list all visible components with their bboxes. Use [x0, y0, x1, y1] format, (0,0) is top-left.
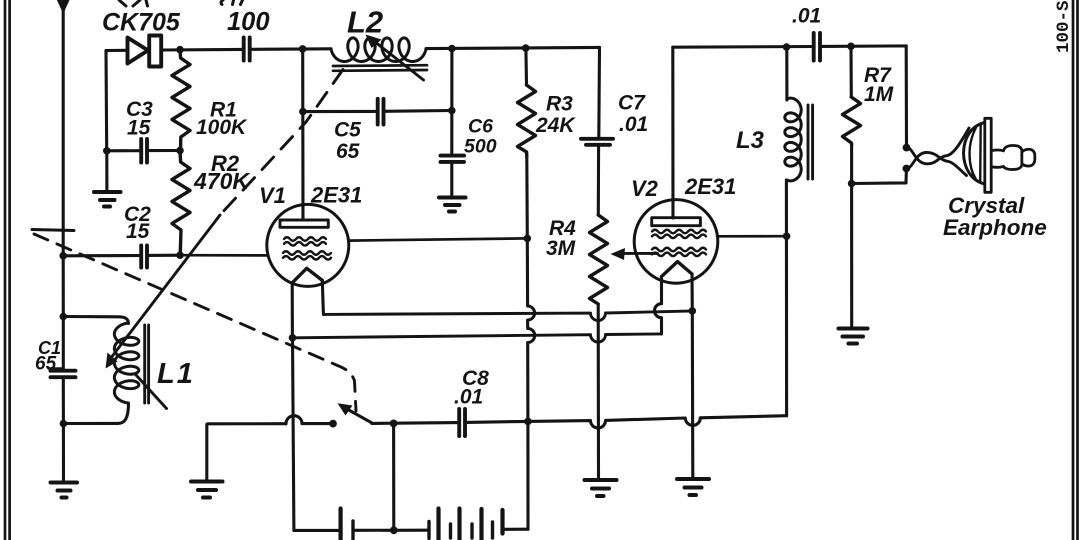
- wire L3 top lead: [785, 47, 788, 100]
- L1 core lines: [145, 325, 149, 403]
- dashed gang line to switch: [34, 234, 356, 411]
- svg-text:C5: C5: [334, 119, 361, 142]
- V2 filament left leg with hop over upper bus: [655, 277, 662, 334]
- svg-text:65: 65: [336, 140, 360, 163]
- diode X1 cathode bar: [149, 36, 161, 67]
- node: R7 bottom junction: [848, 180, 856, 188]
- svg-text:100-S: 100-S: [1054, 0, 1074, 53]
- svg-text:3M: 3M: [546, 237, 576, 260]
- wire corner down to earphone upper terminal: [905, 46, 908, 148]
- wire V1 filament left leg down: [291, 283, 294, 338]
- antenna lead wire: [62, 8, 65, 256]
- wire battery tap riser: [392, 423, 395, 530]
- ground (antenna tank): [51, 483, 78, 498]
- svg-text:V1: V1: [259, 183, 286, 208]
- wire R7 to earphone lower terminal: [852, 169, 907, 184]
- wire C5 right: [384, 109, 452, 113]
- wire diode to R1 node: [162, 48, 243, 52]
- wire C8 bus right with hops to L3 return: [528, 416, 787, 428]
- wire R4 bottom down to ground: [597, 304, 600, 479]
- svg-text:C7: C7: [618, 92, 646, 115]
- wire battery A to B: [355, 529, 427, 532]
- capacitor C3 plates: [141, 139, 147, 163]
- V1 grid 1 wavy: [284, 237, 326, 245]
- node: C2/R2/grid junction: [176, 251, 184, 259]
- node: C3/R1/R2 junction: [176, 147, 184, 155]
- wire top corner down to C7: [597, 47, 601, 138]
- wire down to C1: [62, 317, 65, 371]
- wire to ground: [62, 424, 65, 482]
- wire V1 grid to R3 node: [349, 238, 528, 240]
- svg-text:.01: .01: [619, 113, 648, 136]
- svg-text:.01: .01: [454, 386, 483, 409]
- svg-text:L2: L2: [347, 5, 383, 40]
- twisted pair to earphone: [907, 128, 970, 164]
- inductor L1: [114, 323, 138, 403]
- node: antenna / C2 junction: [59, 252, 67, 260]
- ground (C6): [439, 198, 466, 212]
- svg-text:V2: V2: [631, 176, 659, 201]
- node: R3 branch on top wire: [522, 44, 530, 52]
- wire V1 plate lead: [301, 49, 304, 220]
- C1 label underline: [49, 367, 63, 369]
- wire C3 right to junction: [148, 149, 180, 152]
- V1 grid 2 wavy: [283, 251, 331, 259]
- V2 grid 2 wavy: [652, 248, 706, 256]
- ground (R4 line): [585, 480, 617, 496]
- V2 filament: [662, 262, 693, 277]
- inductor L3: [785, 98, 801, 181]
- battery B plates: [429, 509, 503, 540]
- battery A plate short: [351, 521, 354, 539]
- resistor R2: [172, 151, 190, 256]
- ground (R7 / earphone): [839, 329, 868, 344]
- border left double line: [5, 0, 10, 540]
- svg-text:15: 15: [127, 117, 151, 140]
- svg-text:15: 15: [126, 220, 150, 243]
- svg-text:100K: 100K: [196, 116, 248, 139]
- wire C9 to R7 and earphone corner: [820, 44, 906, 48]
- wire V1 filament right leg: [322, 280, 323, 314]
- wire R7 bottom lead: [850, 145, 853, 184]
- capacitor C5 plates: [378, 99, 384, 125]
- wire L1 bottom: [63, 404, 128, 424]
- wire switch pivot to C8: [372, 421, 459, 425]
- capacitor C1 plates: [51, 371, 76, 378]
- svg-text:65: 65: [35, 354, 57, 375]
- wire battery bottom left: [294, 529, 338, 532]
- node: L3 top junction: [783, 43, 791, 51]
- L2 tuning arrow: [372, 40, 424, 81]
- capacitor C2 plates: [141, 246, 147, 268]
- node: C5/C6 junction: [448, 107, 456, 115]
- node: diode/R1 junction: [176, 46, 184, 54]
- svg-text:2E31: 2E31: [684, 174, 736, 199]
- switch arm: [347, 409, 372, 423]
- wire C1 bottom: [62, 378, 65, 424]
- V1 filament: [292, 268, 322, 283]
- wire down from diode to C3: [104, 51, 108, 151]
- earphone ear nub: [1004, 145, 1022, 169]
- node: C6 branch on top wire: [448, 45, 456, 53]
- svg-text:.01: .01: [792, 5, 821, 28]
- wire C4 to L2 node: [250, 47, 331, 51]
- node: L2 left junction: [299, 45, 307, 53]
- earphone back plate bar: [985, 118, 991, 192]
- dashed gang line start dash: [32, 230, 74, 231]
- wire top right segment (V2 plate to C9): [673, 45, 813, 49]
- svg-text:C6: C6: [468, 116, 493, 138]
- svg-text:100: 100: [227, 8, 270, 36]
- wire C6 to ground: [450, 162, 453, 196]
- svg-text:24K: 24K: [535, 114, 576, 137]
- wire L3 bottom lead down to plate-return corner: [785, 180, 788, 416]
- capacitor C6 plates: [441, 156, 465, 162]
- diode X1 triangle: [128, 38, 149, 64]
- wire C5 row: [303, 110, 377, 113]
- wire V2 right leg to ground: [691, 311, 695, 478]
- svg-text:CK705: CK705: [102, 9, 181, 37]
- V2 grid 1 wavy: [652, 230, 706, 238]
- V2 filament right leg down: [690, 274, 693, 311]
- ground (V2 filament): [677, 479, 709, 495]
- wire grid node down with hops over filament buses: [527, 238, 534, 421]
- top-edge fragment of label X1 (cut off): [119, 0, 148, 6]
- battery A plate long: [339, 509, 343, 540]
- gang line solid end with arrow at L1: [112, 215, 220, 357]
- wire R7 node to ground: [850, 184, 853, 328]
- wire C3 left to ground: [105, 151, 108, 191]
- svg-text:500: 500: [464, 136, 497, 158]
- wire C7 to R4: [597, 146, 600, 216]
- capacitor C7 plates: [581, 139, 613, 145]
- earphone neck: [992, 150, 1004, 167]
- svg-text:R3: R3: [546, 93, 573, 116]
- inductor L2: [331, 38, 426, 62]
- tube V1 envelope: [267, 204, 349, 286]
- node: bottom-left junction: [60, 420, 68, 428]
- node: C3 left junction: [103, 147, 111, 155]
- tube V2 envelope: [634, 200, 718, 284]
- wire C2 row: [63, 254, 140, 257]
- wire hop over battery riser: [286, 416, 330, 424]
- resistor R3: [518, 85, 536, 157]
- node: switch pivot / battery junction: [390, 420, 398, 428]
- wire C2 to R2 junction: [148, 254, 180, 257]
- wire antenna down to L1 tank: [62, 256, 65, 317]
- node: lower filament bus left: [289, 334, 297, 342]
- wire upper filament bus with hop at R4 line: [324, 311, 689, 320]
- svg-text:L3: L3: [736, 127, 765, 154]
- node: C8 bus / vertical junction: [524, 418, 532, 426]
- node: L3 bottom junction: [783, 232, 791, 240]
- earphone tip knob: [1022, 149, 1035, 166]
- ground (C3): [94, 192, 121, 207]
- V2 plate lead from top wire: [671, 47, 674, 218]
- node: earphone terminal lower: [903, 165, 911, 173]
- wire R7 top lead: [849, 46, 852, 97]
- resistor R1: [172, 50, 190, 151]
- node: upper filament bus right: [689, 307, 697, 315]
- wire battery riser (V1 filament left): [293, 338, 294, 531]
- wire R3 chain vertical: [524, 48, 528, 85]
- wire R3 down to grid node: [525, 157, 529, 238]
- wire L2 right to corner: [426, 47, 600, 48]
- svg-text:1M: 1M: [864, 83, 894, 106]
- capacitor C9 .01 plates: [814, 33, 820, 61]
- R4 wiper arrow to V2 grid: [622, 252, 658, 255]
- node: C1/L1 top junction: [60, 313, 68, 321]
- node: C5 left junction: [299, 108, 307, 116]
- L3 core lines: [808, 105, 813, 179]
- node: earphone terminal upper: [903, 144, 911, 152]
- wire C6 vertical: [450, 49, 453, 156]
- resistor R7: [843, 97, 861, 145]
- wire V2 grid to L3 node: [718, 235, 784, 238]
- V1 plate: [280, 220, 328, 227]
- node: V1 grid / R3 junction: [524, 235, 532, 243]
- ground (switch): [191, 482, 223, 498]
- node: R7 top junction: [847, 43, 855, 51]
- capacitor C4 plates: [244, 38, 250, 61]
- antenna arrow: [58, 0, 70, 13]
- wire L1 top: [63, 317, 128, 324]
- resistor R4: [590, 215, 608, 304]
- node: battery tap junction: [390, 526, 398, 534]
- capacitor C8 plates: [459, 409, 465, 436]
- dashed gang line L1 to L2: [220, 70, 343, 216]
- V2 plate: [652, 218, 701, 226]
- L1 slash: [136, 375, 167, 409]
- svg-text:2E31: 2E31: [310, 183, 362, 208]
- wire C8 right to vertical: [466, 421, 528, 422]
- wire vertical down to battery: [526, 421, 529, 529]
- svg-text:L1: L1: [157, 358, 195, 390]
- wire diode left lead: [106, 49, 128, 52]
- wire battery B to vertical: [505, 528, 529, 531]
- wire C3 row: [107, 149, 141, 152]
- wire switch ground riser: [207, 424, 286, 481]
- L2 core lines: [333, 65, 427, 71]
- crystal earphone diaphragm disc: [964, 123, 985, 185]
- wire to V1 grid: [180, 254, 267, 257]
- node: switch contact: [329, 420, 337, 428]
- wire lower filament bus with hop at R4 line: [293, 334, 662, 342]
- top-edge fragment of label C4 (cut off): [221, 0, 243, 5]
- border right double line: [1073, 0, 1078, 540]
- svg-text:Earphone: Earphone: [943, 215, 1047, 240]
